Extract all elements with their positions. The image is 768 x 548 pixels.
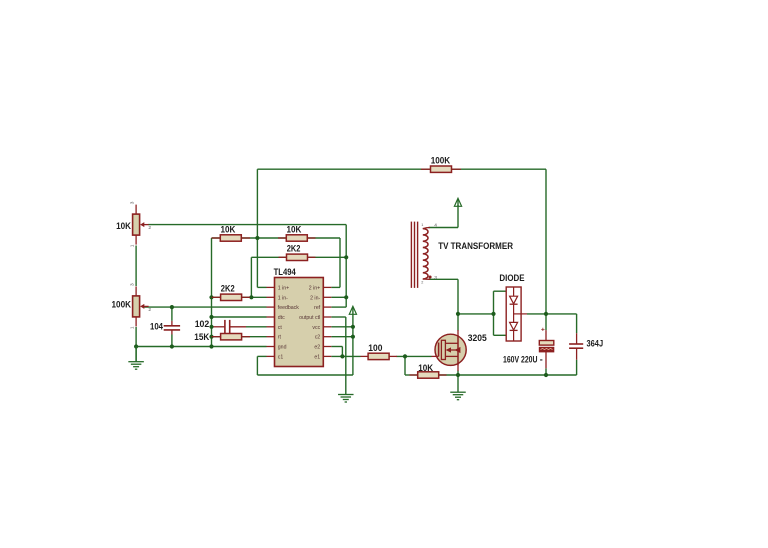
svg-text:1 in+: 1 in+ [278, 285, 289, 291]
wire 364J cap branch x=576.6 [576, 314, 578, 333]
ground under IC output ctrl [338, 394, 354, 396]
node rt row at 15K left [209, 335, 213, 339]
capacitor C2 102 horizontal [224, 320, 226, 334]
diode D1 bridge box [506, 287, 521, 341]
wire output ctrl to ground x=345.8 [331, 316, 346, 318]
svg-text:1: 1 [130, 326, 136, 329]
node gate row at 10K drop [403, 354, 407, 358]
wire dtc row y=317 [212, 316, 267, 318]
svg-text:-: - [540, 354, 543, 364]
wire c2 row to power arrow stem [331, 336, 353, 338]
svg-text:2: 2 [148, 225, 151, 231]
resistor R8 10K gate pulldown [410, 374, 419, 376]
resistor R3 10K right [278, 237, 287, 239]
ground under potentiometers [135, 347, 137, 362]
wire right vertical x=546 top wire down to electrolytic cap [545, 169, 547, 330]
svg-text:2 in-: 2 in- [310, 295, 320, 301]
TL494 pin stubs row 1 [267, 286, 275, 288]
wire electrolytic cap bottom [545, 368, 547, 375]
capacitor C3 electrolytic 160V 220U [545, 330, 547, 340]
svg-text:DIODE: DIODE [499, 273, 524, 283]
svg-text:gnd: gnd [278, 345, 287, 351]
node wiper net at 2K2 upper right [344, 255, 348, 259]
resistor R4 2K2 upper [279, 256, 288, 258]
svg-text:100K: 100K [112, 299, 132, 309]
node dtc row start [209, 315, 213, 319]
svg-text:3: 3 [130, 283, 136, 286]
wire left vertical x=257.4 from top wire to 1in+ [256, 169, 258, 287]
node e1 row at e2 jog [340, 354, 344, 358]
power arrow near IC vcc [349, 306, 356, 314]
wire rt row y=336.7 [212, 336, 222, 338]
wire feedback row y=307.1 from 100K pot wiper [143, 306, 267, 308]
node c2 at power arrow stem [351, 335, 355, 339]
wire vertical x=251.4 2K2 left down to 1in- row [250, 257, 252, 297]
svg-text:rt: rt [278, 335, 282, 341]
node 1in- row at 2K2 upper drop [249, 295, 253, 299]
node gnd row at left vertical [209, 344, 213, 348]
svg-text:100K: 100K [431, 156, 451, 166]
svg-text:2: 2 [421, 281, 423, 285]
wire 2in- row join [331, 296, 346, 298]
svg-text:1 in-: 1 in- [278, 295, 288, 301]
power arrow A stem x=352.9 [352, 314, 354, 375]
svg-text:dtc: dtc [278, 315, 285, 321]
TL494 pin stubs row 5 [267, 326, 275, 328]
transformer polarity dot [429, 276, 432, 279]
wire 10K resistor row y=238 [212, 237, 258, 239]
resistor R1 100K top [421, 168, 431, 170]
wire vcc row to power arrow stem [331, 326, 353, 328]
TL494 pin stubs row 6 [267, 336, 275, 338]
svg-text:3: 3 [130, 201, 136, 204]
svg-text:364J: 364J [587, 338, 604, 348]
node ct row at 102 cap left [209, 325, 213, 329]
svg-text:2K2: 2K2 [287, 244, 301, 254]
node diode bracket mid [491, 312, 495, 316]
node source bottom row [456, 373, 460, 377]
svg-text:102: 102 [195, 319, 210, 329]
TL494 pin stubs row 2 [267, 296, 275, 298]
transformer pin 3 lead [423, 278, 430, 280]
wire 10K pot wiper row y=224.6 [148, 224, 346, 226]
wire bottom row y=375 right section [439, 374, 577, 376]
resistor R5 2K2 lower [212, 296, 222, 298]
wire c1 loop under IC to power arrow stem [256, 356, 258, 375]
wire gate dot down to 10K R8 row [404, 356, 406, 375]
resistor R6 15K [212, 336, 222, 338]
svg-text:vcc: vcc [312, 325, 320, 331]
resistor R7 100 [361, 355, 369, 357]
wire gnd row y=346.5 [136, 346, 266, 348]
wire transformer pin3 row y=279.3 and drain drop [429, 278, 459, 280]
svg-text:160V 220U: 160V 220U [503, 355, 538, 365]
svg-text:10K: 10K [418, 363, 433, 373]
potentiometer RV2 100K [135, 286, 137, 296]
wire vertical x=346.2 wiper to ref pin [345, 225, 347, 308]
TL494 pin stubs row 3 [267, 306, 275, 308]
node feedback-divider junction at 10K resistors [255, 236, 259, 240]
wire diode mid row y=313.9 [458, 313, 494, 315]
capacitor C1 104 vertical [171, 321, 173, 325]
wire left vertical x=211.5 from 10K R1 down to gnd row [211, 238, 213, 347]
svg-text:10K: 10K [287, 224, 302, 234]
transformer pin 4 lead [423, 228, 430, 229]
svg-text:15K: 15K [194, 332, 209, 342]
wire c1 left stub [257, 355, 266, 357]
svg-text:output ctl: output ctl [299, 315, 320, 321]
wire ct row y=326.8 through 102 cap [212, 326, 225, 328]
wire e1 row to gate y=356.4 [331, 355, 360, 357]
wire pot chain vertical x=136.1 [135, 246, 137, 287]
node drain at diode mid row [456, 312, 460, 316]
svg-text:+: + [541, 327, 545, 334]
resistor R2 10K left [212, 237, 221, 239]
wire 1in- row y=297.3 [212, 296, 267, 298]
node feedback row at 104 cap [170, 305, 174, 309]
svg-text:1: 1 [130, 244, 136, 247]
svg-text:TV TRANSFORMER: TV TRANSFORMER [438, 241, 513, 252]
svg-text:104: 104 [150, 321, 164, 331]
node vcc at power arrow stem [351, 325, 355, 329]
wire 104 cap branch x=171.9 [171, 307, 173, 321]
svg-text:2: 2 [148, 307, 151, 313]
node 2in- join [344, 295, 348, 299]
svg-text:TL494: TL494 [274, 267, 296, 277]
node gnd row at 104 cap [170, 344, 174, 348]
svg-text:2K2: 2K2 [221, 284, 235, 294]
svg-text:ct: ct [278, 325, 283, 331]
ground under MOSFET source [450, 391, 466, 393]
node mid row at right vertical [544, 312, 548, 316]
capacitor C4 364J [576, 333, 578, 343]
svg-text:feedback: feedback [278, 305, 299, 311]
power arrow above transformer [454, 198, 461, 206]
transformer primary coil [423, 229, 428, 279]
wire diode left bracket x=493.5 [493, 291, 495, 335]
potentiometer RV1 10K [135, 205, 137, 215]
wire top feedback net y=169.2 [257, 168, 546, 170]
svg-text:10K: 10K [221, 224, 236, 234]
svg-text:3205: 3205 [468, 333, 488, 344]
svg-text:10K: 10K [116, 221, 131, 231]
svg-text:3: 3 [434, 275, 437, 281]
node bottom row at electrolytic [544, 373, 548, 377]
svg-text:100: 100 [368, 343, 382, 353]
node 1in- net at 2K2 left [209, 295, 213, 299]
svg-text:c1: c1 [278, 354, 284, 360]
node gnd row at pot bottom [134, 344, 138, 348]
wire MOSFET source down to ground [457, 371, 459, 393]
TL494 pin stubs row 4 [267, 316, 275, 318]
wire 2K2 R3 row y=257.3 [251, 256, 346, 258]
svg-text:e2: e2 [314, 345, 320, 351]
wire 10K R2 right to 2in+ via x=340 [308, 237, 341, 239]
svg-text:c2: c2 [315, 335, 321, 341]
wire e2 jog to e1 row [331, 346, 342, 348]
TL494 pin stubs row 8 [267, 355, 275, 357]
transformer TR1 TV TRANSFORMER core [410, 222, 412, 288]
wire transformer pin4 row y=227.5 [429, 227, 459, 229]
op-amp U1 TL494 body [275, 278, 324, 367]
svg-text:1: 1 [421, 223, 423, 227]
svg-text:2 in+: 2 in+ [309, 285, 320, 291]
svg-text:4: 4 [434, 222, 437, 228]
transistor Q1 3205 MOSFET [435, 334, 466, 365]
svg-text:e1: e1 [314, 354, 320, 360]
power arrow B stem [457, 205, 459, 228]
TL494 pin stubs row 7 [267, 346, 275, 348]
svg-text:ref: ref [314, 305, 321, 311]
